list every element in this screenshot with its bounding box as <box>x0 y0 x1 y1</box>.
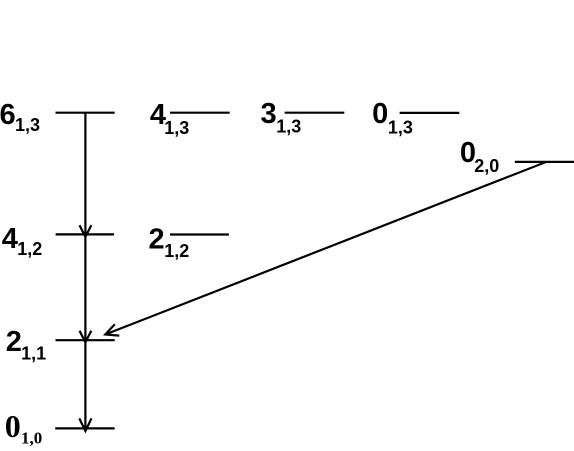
svg-text:3: 3 <box>261 98 277 130</box>
arrowhead at 4_1,2 <box>80 225 92 237</box>
level line 3_1,3 <box>285 112 345 114</box>
level line 0_1,0 <box>55 427 114 429</box>
level line 4_1,2 <box>56 233 115 235</box>
label 4_1,3 <box>150 99 189 138</box>
label 0_2,0 <box>460 137 499 176</box>
label 0_1,0 <box>5 408 43 448</box>
arrowhead at 0_1,0 <box>79 418 91 431</box>
level line 2_1,1 <box>56 339 115 341</box>
svg-text:2: 2 <box>6 326 22 358</box>
arrowhead of transition arrow <box>105 324 119 335</box>
label 4_1,2 <box>2 223 43 259</box>
svg-text:4: 4 <box>2 223 18 255</box>
arrowhead at 2_1,1 <box>80 331 92 343</box>
level line 0_1,3 <box>400 112 460 114</box>
label 6_1,3 <box>0 99 40 135</box>
level line 0_2,0 <box>515 161 574 163</box>
svg-text:1,1: 1,1 <box>21 344 46 364</box>
svg-text:1,3: 1,3 <box>276 117 301 137</box>
svg-text:2,0: 2,0 <box>474 156 499 176</box>
label 0_1,3 <box>372 98 413 137</box>
svg-text:6: 6 <box>0 99 16 131</box>
svg-text:2: 2 <box>149 224 165 256</box>
svg-text:1,2: 1,2 <box>17 239 42 259</box>
label 3_1,3 <box>261 98 302 136</box>
level line 4_1,3 <box>170 112 230 114</box>
transition arrow from 0_2,0 to 2_1,1 <box>105 162 546 335</box>
level line 2_1,2 <box>170 233 229 235</box>
svg-text:1,3: 1,3 <box>388 117 413 137</box>
label 2_1,1 <box>6 326 46 364</box>
level line 6_1,3 <box>56 112 115 114</box>
svg-text:0: 0 <box>372 98 388 130</box>
label 2_1,2 <box>149 224 190 262</box>
svg-text:1,0: 1,0 <box>21 429 42 448</box>
svg-text:1,3: 1,3 <box>164 118 189 138</box>
svg-text:1,3: 1,3 <box>15 115 40 135</box>
svg-text:0: 0 <box>5 408 21 444</box>
svg-text:1,2: 1,2 <box>164 241 189 261</box>
cascade arrow shaft (6_1,3 to 0_1,0) <box>84 113 86 431</box>
